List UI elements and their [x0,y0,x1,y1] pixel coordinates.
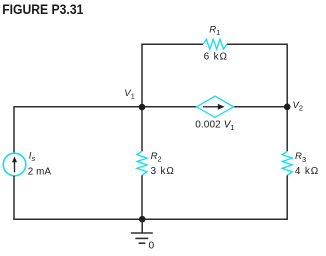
svg-text:FIGURE P3.31: FIGURE P3.31 [2,1,83,17]
svg-text:6 kΩ: 6 kΩ [204,52,228,63]
svg-text:R3: R3 [295,151,306,164]
wire left rail upper (to current source) [13,106,15,153]
resistor R1 [203,39,227,49]
wire left rail lower (source to bottom) [13,176,15,220]
svg-text:Is: Is [29,151,36,164]
svg-text:4 kΩ: 4 kΩ [295,166,319,177]
svg-text:0: 0 [149,241,155,252]
wire middle rail right segment [234,106,288,108]
wire R3 to bottom rail [286,175,288,220]
wire R2 to bottom rail [141,175,143,219]
node V1 [139,104,146,111]
svg-text:0.002 V1: 0.002 V1 [195,119,235,132]
wire bottom rail [13,218,288,220]
ground [131,219,153,243]
svg-text:R1: R1 [209,24,220,37]
wire middle rail V1 down to R2 [141,107,143,152]
resistor R2 [137,151,147,175]
svg-text:V2: V2 [293,100,304,113]
resistor R3 [282,151,292,175]
current source Is [3,153,26,176]
svg-text:3 kΩ: 3 kΩ [151,166,175,177]
svg-text:V1: V1 [124,88,135,101]
wire top rail right of R1, right rail down to R3 [227,44,287,151]
node V2 [284,104,291,111]
wire middle rail left segment [14,106,197,108]
svg-text:R2: R2 [151,151,162,164]
svg-text:2 mA: 2 mA [28,167,52,178]
wire top loop: V1 up, top rail left of R1 [142,44,203,107]
node ground junction [139,216,146,223]
dependent source 0.002 V1 (diamond) [197,96,234,117]
